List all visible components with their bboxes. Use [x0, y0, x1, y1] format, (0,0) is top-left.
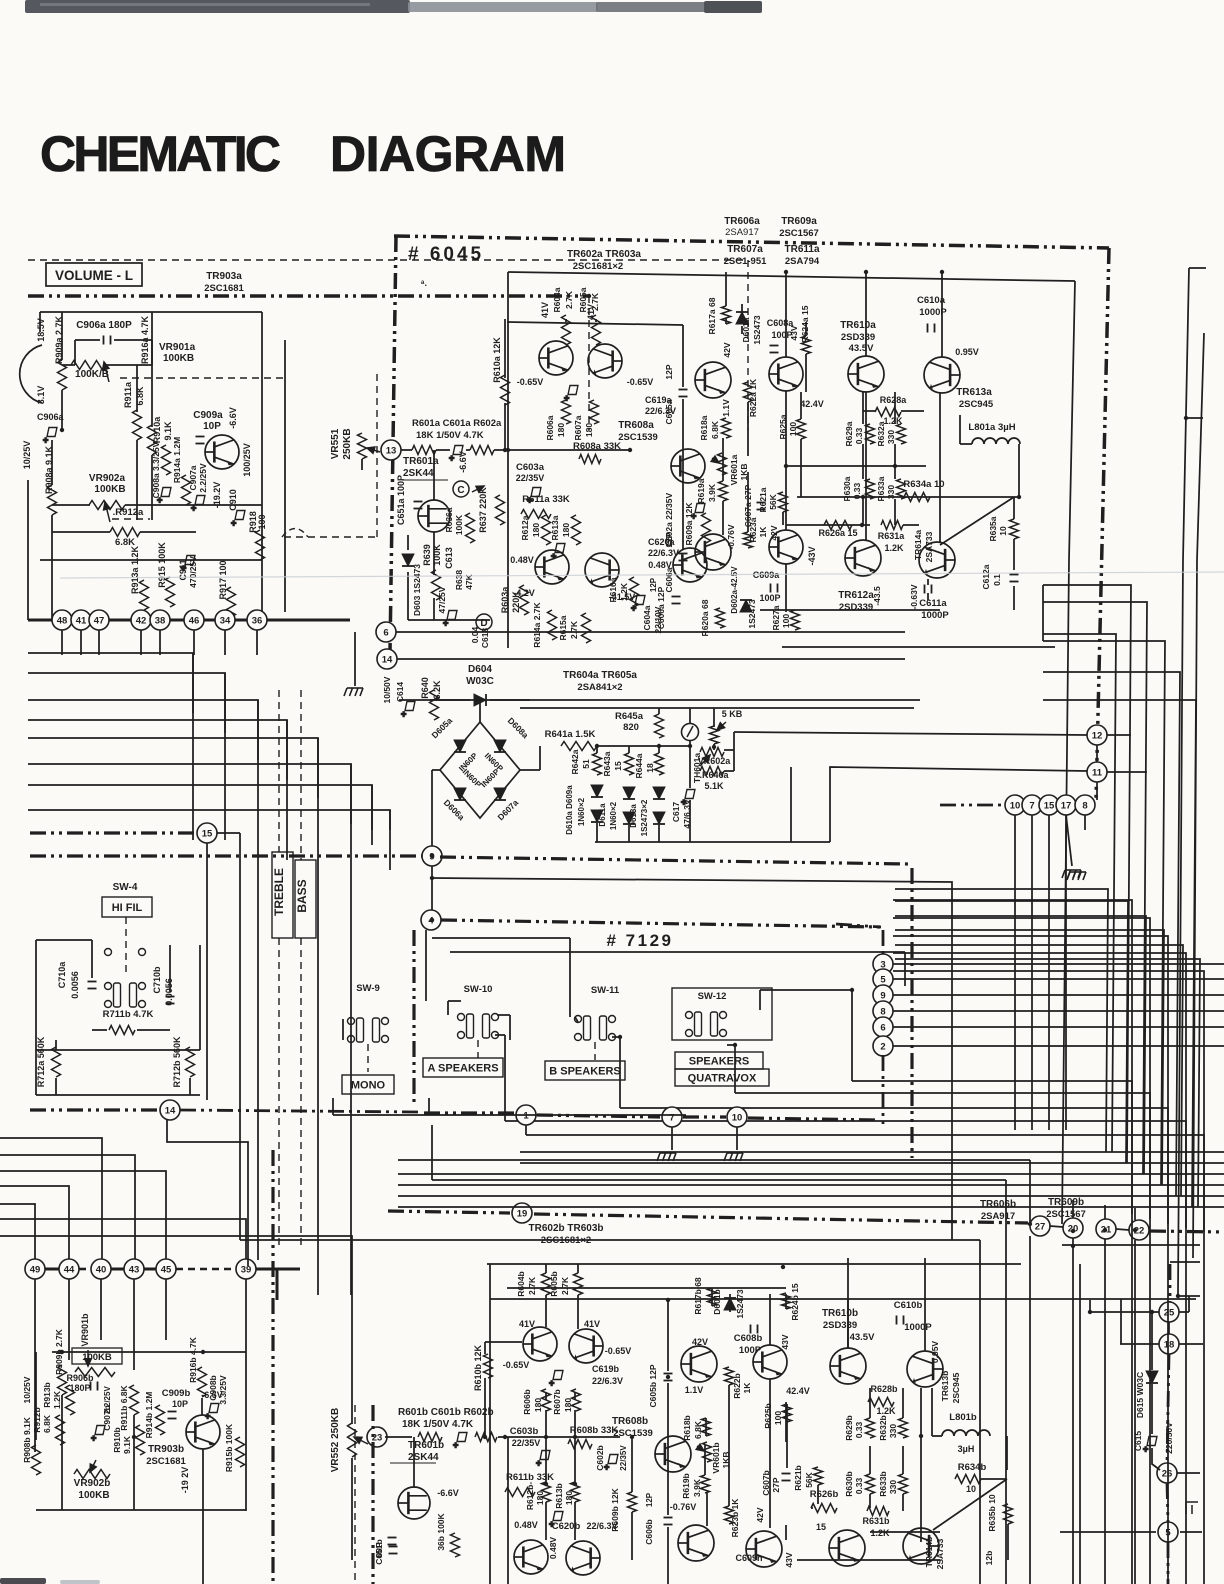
- resistor R615a: [582, 613, 591, 643]
- wire: [0, 1236, 352, 1424]
- wire: [545, 1392, 547, 1400]
- svg-text:3.9K: 3.9K: [692, 1478, 702, 1497]
- diode D605a: [454, 740, 466, 752]
- wire: [847, 1258, 849, 1348]
- wire: [1116, 1229, 1129, 1230]
- wire: [847, 1300, 849, 1348]
- svg-text:42: 42: [136, 615, 147, 626]
- svg-text:100KB: 100KB: [163, 353, 194, 364]
- wire: [800, 439, 802, 497]
- bus wire: [1167, 1542, 1170, 1584]
- svg-text:C651b: C651b: [374, 1539, 384, 1565]
- wire: [1005, 1180, 1007, 1584]
- wire: [466, 449, 470, 451]
- svg-text:1: 1: [523, 1110, 529, 1121]
- svg-text:2.7K: 2.7K: [527, 1276, 537, 1295]
- capacitor cap: [389, 1547, 398, 1554]
- wire: [27, 480, 29, 620]
- wire: [741, 326, 743, 334]
- svg-text:R629a: R629a: [844, 421, 854, 446]
- svg-text:R617b 68: R617b 68: [693, 1277, 703, 1315]
- svg-text:L801a 3µH: L801a 3µH: [968, 422, 1015, 433]
- svg-text:R611a 33K: R611a 33K: [522, 494, 570, 505]
- wire: [224, 630, 226, 655]
- wire: [245, 1310, 247, 1511]
- wire: [713, 744, 715, 750]
- label box VOLUME-L: [46, 263, 142, 286]
- bus wire: [1193, 333, 1204, 1258]
- svg-text:R616a: R616a: [608, 577, 618, 602]
- node 26: [1157, 1463, 1177, 1483]
- wire: [1006, 1436, 1008, 1470]
- wire: [28, 700, 258, 760]
- svg-text:R914b 1.2M: R914b 1.2M: [144, 1392, 154, 1439]
- transistor TR605a: [585, 553, 619, 587]
- junction: [919, 1434, 923, 1438]
- wire: [484, 1378, 486, 1437]
- svg-text:14: 14: [382, 654, 393, 665]
- transistor TR601a 2SK44: [418, 500, 450, 532]
- capacitor C907a: [191, 496, 205, 514]
- node 40: [91, 1259, 111, 1279]
- capacitor C608a 100P: [770, 346, 779, 353]
- wire: [869, 1388, 871, 1418]
- wire: [1043, 672, 1180, 1196]
- wire: [711, 1288, 713, 1306]
- wire: [55, 1040, 57, 1050]
- wire: [805, 354, 807, 392]
- svg-text:0.0056: 0.0056: [164, 978, 174, 1006]
- junction: [430, 876, 434, 880]
- capacitor C617: [681, 790, 695, 808]
- svg-text:D610a D609a: D610a D609a: [565, 785, 574, 835]
- wire: [893, 918, 1150, 1584]
- svg-text:L801b: L801b: [949, 1412, 977, 1423]
- resistor VR901a: [71, 361, 105, 370]
- svg-text:+: +: [43, 435, 48, 445]
- node 23: [367, 1427, 387, 1447]
- resistor R625a 100: [797, 419, 806, 439]
- svg-text:15: 15: [613, 761, 623, 771]
- node 18: [1159, 1334, 1179, 1354]
- wire: [722, 501, 724, 535]
- svg-text:100: 100: [257, 514, 267, 529]
- switch SW-12: [686, 1012, 727, 1037]
- svg-text:-0.76V: -0.76V: [670, 1502, 697, 1512]
- svg-text:R635a: R635a: [988, 516, 998, 541]
- resistor R626b 15: [811, 1504, 837, 1513]
- capacitor C603a: [527, 488, 541, 506]
- switch SW-4: [105, 949, 146, 956]
- svg-text:2SC1681: 2SC1681: [146, 1456, 186, 1467]
- svg-text:2SD339: 2SD339: [823, 1320, 857, 1331]
- svg-text:C906a: C906a: [37, 412, 65, 422]
- wire: [1072, 1200, 1074, 1218]
- node 19: [512, 1203, 532, 1223]
- wire: [725, 272, 727, 306]
- svg-text:R915 100K: R915 100K: [157, 542, 167, 588]
- svg-text:330: 330: [888, 1480, 898, 1494]
- svg-text:DIAGRAM: DIAGRAM: [330, 126, 568, 182]
- wire: [51, 440, 53, 485]
- svg-text:39: 39: [241, 1264, 252, 1275]
- wire: [797, 496, 1019, 498]
- svg-text:R634a 10: R634a 10: [903, 479, 944, 490]
- diode D603: [402, 554, 414, 566]
- wire: [927, 593, 929, 600]
- wire: [1043, 700, 1196, 1207]
- svg-text:HI FIL: HI FIL: [112, 902, 143, 914]
- wire: [28, 810, 390, 870]
- wire: [941, 272, 943, 357]
- svg-text:R909a 2.7K: R909a 2.7K: [54, 315, 64, 364]
- svg-text:0.95V: 0.95V: [930, 1341, 940, 1364]
- svg-text:42.4V: 42.4V: [786, 1386, 810, 1396]
- net #7129 right border: [882, 930, 885, 955]
- svg-text:R606b: R606b: [522, 1389, 532, 1415]
- wire: [1134, 1208, 1136, 1220]
- resistor R623a 1K: [744, 532, 753, 548]
- svg-text:2SC945: 2SC945: [959, 399, 994, 410]
- transistor TR604a: [535, 550, 569, 584]
- wire: [902, 1388, 904, 1418]
- wire: [489, 1264, 491, 1584]
- svg-text:0.04: 0.04: [470, 626, 480, 643]
- svg-text:MONO: MONO: [351, 1080, 386, 1092]
- switch SW-4: [105, 983, 146, 1008]
- svg-text:10: 10: [966, 1484, 976, 1494]
- wire: [631, 1512, 633, 1560]
- svg-text:VR601a: VR601a: [729, 454, 739, 485]
- wire: [1042, 585, 1044, 641]
- svg-text:2SD339: 2SD339: [839, 602, 873, 613]
- svg-text:C908a 3.3/25V: C908a 3.3/25V: [151, 441, 161, 498]
- wire: [61, 312, 63, 360]
- svg-text:2SK44: 2SK44: [403, 468, 434, 479]
- svg-text:22/6.3V: 22/6.3V: [645, 406, 676, 416]
- svg-text:C710b: C710b: [152, 966, 162, 994]
- junction: [893, 464, 897, 468]
- wire: [137, 1029, 170, 1031]
- svg-text:TR903a: TR903a: [206, 271, 242, 282]
- junction: [781, 1265, 785, 1269]
- svg-text:2SA794: 2SA794: [785, 256, 820, 267]
- capacitor C908b: [205, 1404, 219, 1422]
- wire: [895, 959, 1200, 1207]
- wire: [507, 322, 683, 325]
- net #7129 bottom border: [424, 1111, 515, 1114]
- svg-text:41V: 41V: [540, 302, 550, 318]
- node 8: [1075, 795, 1095, 815]
- junction: [506, 448, 510, 452]
- wire: [689, 708, 691, 724]
- svg-text:C602a 22/35V: C602a 22/35V: [664, 492, 674, 547]
- wire: [1188, 1296, 1190, 1312]
- svg-text:W03C: W03C: [466, 676, 494, 687]
- label box 100KB: [72, 1348, 122, 1364]
- svg-text:17: 17: [1061, 800, 1072, 811]
- capacitor C609a 100P: [771, 584, 778, 593]
- wire: [1120, 1299, 1122, 1344]
- wire: [505, 1121, 1186, 1228]
- svg-text:C614: C614: [395, 682, 405, 703]
- svg-text:R610a 12K: R610a 12K: [492, 337, 502, 383]
- svg-text:R623a: R623a: [748, 517, 758, 542]
- bus wire: [1150, 1231, 1224, 1232]
- svg-text:-0.65V: -0.65V: [517, 377, 544, 387]
- svg-text:180: 180: [584, 423, 594, 437]
- svg-text:C910: C910: [228, 489, 238, 511]
- wire: [805, 322, 807, 336]
- wire: [682, 399, 684, 550]
- wire: [509, 1015, 511, 1040]
- transistor TR611a: [769, 530, 803, 564]
- wire: [494, 449, 630, 451]
- junction: [544, 1435, 548, 1439]
- wire: [727, 1044, 735, 1046]
- wire: [713, 708, 715, 727]
- wire: [893, 978, 1224, 980]
- svg-text:R638: R638: [454, 570, 464, 591]
- capacitor C607b 27P: [782, 1474, 791, 1481]
- diode D602a: [740, 600, 752, 612]
- svg-text:1000P: 1000P: [904, 1322, 932, 1333]
- label underline: [402, 479, 448, 481]
- svg-text:2.7K: 2.7K: [569, 620, 579, 639]
- wiper arrow: [85, 1350, 92, 1366]
- wire: [448, 1000, 461, 1002]
- wire: [317, 738, 319, 1240]
- wire: [865, 272, 867, 356]
- svg-text:43: 43: [129, 1264, 140, 1275]
- wire: [893, 994, 1224, 996]
- node 5: [873, 969, 893, 989]
- capacitor C905a: [43, 428, 57, 446]
- svg-text:C610b: C610b: [894, 1300, 923, 1311]
- svg-text:3.1V: 3.1V: [36, 386, 46, 405]
- capacitor C908a: [157, 488, 171, 506]
- node 11: [1087, 762, 1107, 782]
- svg-text:56K: 56K: [804, 1471, 814, 1487]
- svg-text:VR902a: VR902a: [89, 473, 126, 484]
- resistor R604b 2.7K: [542, 1273, 551, 1295]
- svg-text:36: 36: [252, 615, 263, 626]
- svg-text:C606b: C606b: [644, 1519, 654, 1545]
- bus wire: [144, 1268, 156, 1271]
- svg-text:R625b: R625b: [763, 1403, 773, 1429]
- svg-text:R629b: R629b: [844, 1415, 854, 1441]
- resistor R634b 10: [955, 1475, 981, 1484]
- wire: [595, 841, 830, 843]
- wire: [894, 499, 896, 525]
- label box TREBLE: [272, 852, 293, 938]
- wire: [407, 535, 409, 550]
- wire: [1031, 815, 1033, 1130]
- svg-text:11: 11: [1092, 767, 1103, 778]
- node 14: [160, 1100, 180, 1120]
- resistor R635b 10: [1004, 1504, 1013, 1524]
- dashed wire: [284, 536, 377, 538]
- wire: [577, 1295, 579, 1329]
- svg-text:48: 48: [57, 615, 68, 626]
- svg-text:D604: D604: [468, 664, 492, 675]
- svg-text:+: +: [549, 1378, 554, 1388]
- svg-text:2SA841×2: 2SA841×2: [577, 682, 622, 693]
- svg-text:C619b: C619b: [592, 1364, 620, 1374]
- wire: [1013, 497, 1015, 519]
- svg-text:8: 8: [880, 1006, 885, 1017]
- svg-text:R913b: R913b: [42, 1382, 52, 1408]
- wire: [520, 769, 540, 771]
- svg-text:-6.6V: -6.6V: [201, 1390, 223, 1400]
- ground: [344, 688, 363, 696]
- svg-text:-0.65V: -0.65V: [503, 1360, 530, 1370]
- wire: [797, 1559, 940, 1561]
- svg-text:R631a: R631a: [878, 531, 906, 541]
- wire: [747, 472, 749, 532]
- svg-text:100K/B: 100K/B: [75, 369, 109, 380]
- resistor R604a: [562, 315, 571, 345]
- svg-text:47/25V: 47/25V: [437, 586, 447, 613]
- transistor TR619a: [673, 548, 707, 582]
- svg-text:R605b: R605b: [549, 1271, 559, 1297]
- svg-text:+: +: [231, 518, 236, 528]
- bus wire: [371, 1405, 374, 1584]
- svg-text:3.9K: 3.9K: [707, 483, 717, 502]
- resistor R637 220K: [496, 495, 505, 525]
- net #6045 top border: [394, 236, 1109, 248]
- wire: [257, 1240, 259, 1260]
- junction: [503, 1435, 507, 1439]
- wire: [545, 1410, 547, 1484]
- junction: [1071, 1244, 1075, 1248]
- svg-text:R620a 68: R620a 68: [700, 599, 710, 636]
- svg-text:15: 15: [202, 828, 213, 839]
- wire: [747, 402, 749, 456]
- resistor R632b 330: [899, 1418, 908, 1438]
- resistor VR601b 1KB: [703, 1442, 712, 1462]
- wire: [52, 1351, 246, 1353]
- wire: [667, 1300, 669, 1371]
- node 10: [1005, 795, 1025, 815]
- svg-text:R615a: R615a: [558, 615, 568, 640]
- node 8: [873, 1001, 893, 1021]
- label box BASS: [295, 860, 316, 938]
- svg-text:+: +: [1143, 1444, 1148, 1454]
- svg-text:220K: 220K: [511, 591, 521, 613]
- wire: [484, 1342, 486, 1354]
- svg-text:1S2473: 1S2473: [735, 1289, 745, 1319]
- node 43: [124, 1259, 144, 1279]
- wire: [167, 1120, 248, 1266]
- wire: [202, 1449, 204, 1584]
- bus wire: [910, 868, 913, 1158]
- resistor R916b 4.7K: [198, 1367, 207, 1397]
- node 6: [873, 1017, 893, 1037]
- input jack arc: [20, 345, 42, 403]
- net #7129 bottom border: [683, 1115, 726, 1118]
- wire: [1179, 1343, 1203, 1345]
- svg-text:180: 180: [531, 523, 541, 537]
- svg-text:TR614a: TR614a: [913, 530, 923, 561]
- capacitor C606a: [672, 597, 681, 604]
- node 22: [1129, 1220, 1149, 1240]
- wire: [333, 1114, 686, 1116]
- label box QUATRAVOX: [675, 1069, 769, 1086]
- wire: [574, 1502, 576, 1540]
- svg-text:R621b: R621b: [793, 1465, 803, 1491]
- capacitor C911: [181, 556, 195, 574]
- svg-text:7: 7: [1029, 800, 1034, 811]
- svg-text:.R912a: .R912a: [113, 507, 144, 518]
- resistor R617a 68: [722, 306, 731, 324]
- bus wire: [388, 1211, 510, 1213]
- wire: [1062, 1244, 1200, 1246]
- wire: [1060, 1531, 1156, 1533]
- wire: [51, 515, 53, 620]
- ground: [1067, 872, 1086, 880]
- svg-text:A SPEAKERS: A SPEAKERS: [427, 1063, 498, 1075]
- resistor R633a 330: [897, 479, 906, 499]
- wire: [724, 749, 734, 751]
- inductor L801b: [942, 1430, 990, 1436]
- wire: [28, 738, 318, 798]
- wire: [407, 572, 409, 620]
- wire: [257, 700, 259, 1240]
- wire: [199, 945, 201, 1050]
- wiper arrow: [700, 755, 710, 766]
- resistor R910b 9.1K: [136, 1425, 145, 1455]
- dashed wire: [594, 1042, 596, 1060]
- wire: [1170, 1261, 1200, 1263]
- node 15: [197, 823, 217, 843]
- resistor R611a 33K: [521, 510, 551, 519]
- wire: [960, 443, 972, 445]
- diode D601b: [724, 1298, 736, 1310]
- svg-text:0.48V: 0.48V: [514, 1520, 538, 1530]
- diode D615 W03C: [1146, 1371, 1158, 1383]
- svg-text:R612b-: R612b-: [525, 1482, 535, 1511]
- wire: [1065, 815, 1067, 1130]
- svg-text:42V: 42V: [692, 1337, 708, 1347]
- svg-text:R637 220K: R637 220K: [478, 487, 488, 533]
- capacitor C606a 12P: [679, 554, 688, 561]
- capacitor C909b 10P: [168, 1412, 177, 1419]
- wire: [397, 658, 905, 660]
- switch SW-12 frame: [672, 988, 772, 1040]
- resistor R630a 0.33: [866, 479, 875, 499]
- svg-text:C611a: C611a: [919, 598, 947, 609]
- net #7129 bottom border: [537, 1115, 660, 1117]
- node 42: [131, 610, 151, 630]
- svg-text:250KB: 250KB: [342, 428, 353, 459]
- node 10: [727, 1107, 747, 1127]
- transistor TR601b 2SK44: [398, 1487, 430, 1519]
- svg-text:100: 100: [781, 614, 791, 628]
- svg-text:# 7129: # 7129: [607, 931, 674, 950]
- wiper arrow: [711, 456, 719, 463]
- svg-text:R631b: R631b: [862, 1516, 890, 1526]
- wire: [1189, 267, 1206, 269]
- wire: [351, 1458, 353, 1560]
- wire: [224, 673, 226, 840]
- diode D613a: [653, 812, 665, 824]
- svg-text:R607a: R607a: [573, 415, 583, 440]
- svg-text:C: C: [457, 485, 464, 496]
- wire: [741, 304, 743, 312]
- wire: [870, 1531, 940, 1533]
- resistor R638: [432, 570, 441, 600]
